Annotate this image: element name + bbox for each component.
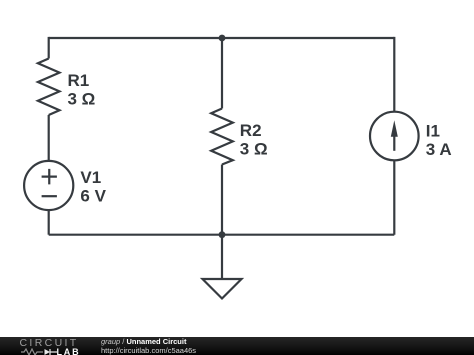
logo LAB: [57, 347, 81, 355]
svg-text:R1: R1: [68, 71, 90, 90]
label V1: [80, 168, 106, 205]
svg-text:R2: R2: [240, 121, 262, 140]
footer title line: [101, 337, 186, 346]
label I1: [426, 121, 452, 159]
logo CIRCUIT: [20, 337, 79, 349]
ground: [203, 279, 242, 299]
resistor R1: [38, 59, 60, 116]
svg-text:3 Ω: 3 Ω: [240, 140, 268, 159]
svg-text:6 V: 6 V: [80, 186, 106, 205]
wire left rail upper: [48, 37, 50, 59]
footer url line: [101, 346, 196, 355]
svg-text:V1: V1: [80, 168, 101, 187]
wire left rail lower: [48, 210, 50, 235]
resistor R2: [211, 109, 233, 165]
svg-text:I1: I1: [426, 121, 440, 140]
wire left rail middle: [48, 115, 50, 161]
node junction bottom: [219, 231, 226, 238]
logo schematic squiggle: [21, 348, 59, 355]
wire right rail lower: [393, 160, 395, 234]
node junction top: [219, 35, 226, 42]
wire middle rail lower: [221, 165, 223, 235]
footer bar: [0, 337, 474, 355]
wire middle rail upper: [221, 38, 223, 109]
svg-text:3 Ω: 3 Ω: [68, 89, 96, 108]
wire right rail upper: [393, 37, 395, 112]
current source I1: [370, 112, 419, 161]
label R2: [240, 121, 268, 159]
label R1: [68, 71, 96, 108]
wire top rail: [49, 37, 395, 39]
wire bottom rail: [49, 234, 395, 236]
svg-text:3 A: 3 A: [426, 140, 452, 159]
voltage source V1: [24, 161, 73, 210]
wire ground stem: [221, 235, 223, 279]
